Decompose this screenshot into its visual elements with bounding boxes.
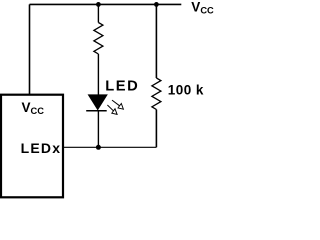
LED D1: cathode bar <box>86 110 107 112</box>
LED light arrow 1 (upper) <box>112 100 123 109</box>
wire: 100k to LEDx wire <box>155 110 157 148</box>
wire: LED cathode down to bottom node <box>97 111 99 148</box>
svg-text:LEDx: LEDx <box>21 140 62 156</box>
wire: top horizontal VCC rail <box>30 3 182 5</box>
wire: resistor to LED anode <box>97 54 99 95</box>
svg-text:100 k: 100 k <box>168 83 204 98</box>
node: junction on rail at 100k branch <box>154 2 159 7</box>
wire: rail down to 100k resistor <box>155 4 157 78</box>
LED light arrow 2 (lower) <box>107 105 117 114</box>
wire: LEDx pin horizontal <box>63 146 157 148</box>
IC box U1 <box>1 95 63 198</box>
wire: left vertical from rail to box VCC pin <box>29 4 31 95</box>
resistor R (LED series) <box>94 23 103 55</box>
svg-text:LED: LED <box>105 79 139 95</box>
LED D1: anode triangle <box>88 95 107 110</box>
resistor R2 100k <box>152 78 161 110</box>
svg-text:VCC: VCC <box>191 0 214 16</box>
node: junction on rail at LED branch <box>96 2 101 7</box>
svg-text:VCC: VCC <box>22 100 45 116</box>
node: junction on LEDx wire <box>96 145 101 150</box>
wire: rail down to resistor R <box>97 4 99 22</box>
